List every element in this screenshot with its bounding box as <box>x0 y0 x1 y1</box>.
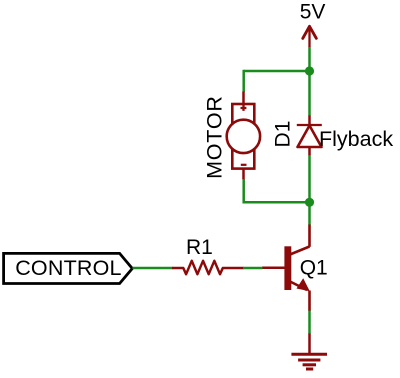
wire motor branch vertical top <box>242 70 245 92</box>
net flag CONTROL <box>4 253 133 283</box>
pin transistor collector <box>308 225 311 247</box>
svg-text:MOTOR: MOTOR <box>202 95 226 179</box>
pin motor bottom <box>242 169 245 180</box>
svg-text:5V: 5V <box>300 0 326 23</box>
wire resistor to transistor base <box>243 267 263 270</box>
pin motor top <box>242 92 245 105</box>
wire bottom horizontal motor to junction <box>244 201 310 204</box>
pin ground <box>308 334 311 355</box>
ground symbol <box>291 354 327 369</box>
power symbol 5V arrow <box>303 26 317 47</box>
transistor Q1 <box>262 246 310 291</box>
wire 5V arrow to top junction <box>308 47 311 71</box>
wire control to resistor <box>133 267 173 270</box>
node top junction <box>305 66 314 75</box>
wire top horizontal to motor branch <box>244 70 310 73</box>
svg-text:D1: D1 <box>272 121 295 148</box>
svg-text:Flyback: Flyback <box>319 127 393 151</box>
pin transistor emitter <box>308 291 311 312</box>
wire bottom junction to transistor collector <box>308 202 311 225</box>
svg-text:CONTROL: CONTROL <box>15 256 122 280</box>
pin diode cathode <box>308 116 311 126</box>
wire top junction to diode <box>308 71 311 116</box>
motor M1 body <box>227 104 260 169</box>
diode D1 <box>297 125 322 147</box>
svg-text:Q1: Q1 <box>300 257 328 280</box>
resistor R1 <box>172 261 244 274</box>
node bottom junction <box>305 198 314 207</box>
wire motor branch vertical bottom <box>242 179 245 204</box>
wire diode to bottom junction <box>308 155 311 202</box>
svg-text:R1: R1 <box>186 236 213 259</box>
wire emitter to ground <box>308 311 311 335</box>
pin diode anode <box>308 147 311 156</box>
